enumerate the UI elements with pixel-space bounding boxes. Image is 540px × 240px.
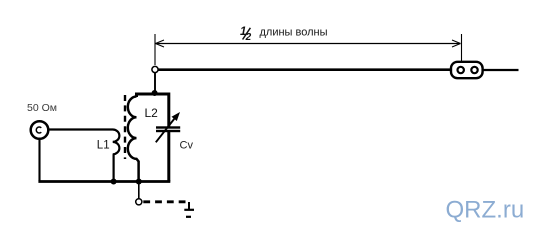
capacitor Cv plates bbox=[156, 126, 180, 181]
svg-text:QRZ.ru: QRZ.ru bbox=[446, 197, 525, 224]
svg-text:2: 2 bbox=[245, 32, 252, 43]
label Cv bbox=[180, 140, 194, 152]
antenna wire (right stub) bbox=[483, 69, 519, 71]
antenna wire (left half) bbox=[158, 68, 451, 71]
dimension extension line left bbox=[154, 34, 156, 65]
inductor L2 bbox=[128, 97, 139, 182]
label L1 bbox=[97, 139, 110, 151]
antenna feed terminal node bbox=[152, 66, 158, 72]
dimension extension line right bbox=[461, 34, 463, 66]
label L2 bbox=[145, 106, 159, 120]
ground terminal node bbox=[136, 199, 142, 205]
label 1/2 fraction bbox=[240, 26, 252, 43]
label "длины волны" bbox=[260, 27, 328, 39]
transformer core (dashed) bbox=[124, 95, 126, 159]
generator G 50 Ohm bbox=[31, 121, 49, 139]
insulator bbox=[451, 62, 483, 78]
svg-text:L1: L1 bbox=[97, 139, 110, 151]
wire: down to ground terminal bbox=[138, 182, 140, 199]
capacitor Cv variable arrow bbox=[156, 112, 180, 142]
junction: L1 bottom bbox=[111, 179, 117, 185]
wire: feed terminal down to tank top bbox=[154, 73, 156, 93]
svg-text:50 Ом: 50 Ом bbox=[27, 102, 57, 114]
wire: tank circuit top bbox=[137, 94, 169, 127]
wire: generator bottom down bbox=[38, 139, 40, 181]
inductor L1 bbox=[49, 130, 120, 182]
svg-text:L2: L2 bbox=[145, 106, 159, 120]
wire: bottom bus bbox=[38, 180, 170, 183]
svg-text:Cv: Cv bbox=[180, 140, 194, 152]
ground bbox=[184, 202, 194, 217]
watermark QRZ.ru bbox=[446, 197, 525, 224]
dashed wire to ground bbox=[143, 200, 188, 203]
dimension line (half wavelength) bbox=[156, 40, 461, 47]
junction: L2 bottom / ground branch bbox=[136, 179, 142, 185]
svg-text:длины волны: длины волны bbox=[260, 27, 328, 39]
label 50 Ом bbox=[27, 102, 57, 114]
junction: antenna to tank top bbox=[152, 90, 158, 96]
